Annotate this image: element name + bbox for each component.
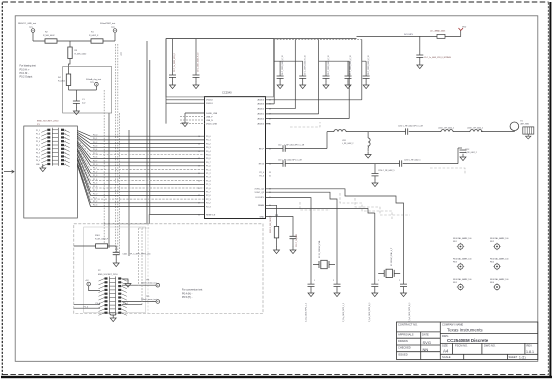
svg-text:DRAWN: DRAWN bbox=[398, 339, 408, 343]
svg-text:P2_0: P2_0 bbox=[36, 141, 40, 143]
svg-text:P2_2: P2_2 bbox=[36, 145, 40, 147]
svg-text:C5 C_100N_0402_K_10: C5 C_100N_0402_K_10 bbox=[305, 55, 307, 75]
svg-text:21: 21 bbox=[198, 173, 200, 175]
svg-text:23: 23 bbox=[198, 180, 200, 182]
svg-text:P1_0: P1_0 bbox=[93, 164, 97, 166]
svg-text:AVDD6: AVDD6 bbox=[257, 99, 264, 102]
svg-text:DGND_USB: DGND_USB bbox=[206, 113, 218, 115]
svg-text:17: 17 bbox=[198, 158, 200, 160]
svg-text:FIDUCIAL_MARK_100: FIDUCIAL_MARK_100 bbox=[490, 257, 508, 260]
svg-text:For biasing test: For biasing test bbox=[20, 65, 37, 68]
svg-text:USB_N: USB_N bbox=[206, 120, 213, 122]
svg-text:REFVCC_GND_test: REFVCC_GND_test bbox=[18, 22, 37, 25]
svg-text:1 (1): 1 (1) bbox=[519, 356, 526, 360]
svg-text:32: 32 bbox=[269, 176, 271, 178]
svg-text:ANT_SMD: ANT_SMD bbox=[521, 123, 530, 126]
svg-text:C9 C_1u_0603_X5R_K_BYPASS: C9 C_1u_0603_X5R_K_BYPASS bbox=[424, 56, 452, 59]
svg-text:R_0R_0402_F: R_0R_0402_F bbox=[95, 239, 109, 241]
svg-text:P0_2: P0_2 bbox=[36, 156, 40, 158]
svg-text:USB_P: USB_P bbox=[206, 116, 213, 118]
svg-text:15: 15 bbox=[198, 151, 200, 153]
svg-text:P1_1: P1_1 bbox=[93, 168, 97, 170]
svg-text:C_15p_0402_NPO_J_5: C_15p_0402_NPO_J_5 bbox=[343, 303, 345, 322]
svg-text:P0_7: P0_7 bbox=[62, 164, 66, 166]
svg-text:P1_3: P1_3 bbox=[93, 175, 97, 177]
svg-text:C_RF_0402_2: C_RF_0402_2 bbox=[465, 152, 477, 154]
svg-text:R_0402: R_0402 bbox=[58, 81, 66, 83]
svg-text:C253 C_RF_0402_5: C253 C_RF_0402_5 bbox=[404, 160, 420, 162]
svg-text:C254 C_RF_0402_5: C254 C_RF_0402_5 bbox=[378, 170, 394, 172]
svg-text:P1_7: P1_7 bbox=[93, 190, 97, 192]
svg-text:11: 11 bbox=[198, 136, 200, 138]
svg-text:C_1p5_0402_NPO_B_5: C_1p5_0402_NPO_B_5 bbox=[409, 303, 411, 322]
svg-text:P2_3: P2_3 bbox=[62, 145, 66, 147]
svg-text:TP4: TP4 bbox=[146, 280, 149, 282]
svg-text:500mV_sense_test: 500mV_sense_test bbox=[141, 298, 157, 301]
svg-text:SIZE: SIZE bbox=[442, 344, 448, 348]
svg-text:FID3: FID3 bbox=[453, 261, 457, 263]
svg-text:C10: C10 bbox=[278, 145, 281, 147]
svg-text:Texas Instruments: Texas Instruments bbox=[447, 327, 483, 332]
svg-text:L_RF_0402_2: L_RF_0402_2 bbox=[342, 143, 353, 145]
svg-text:C6 C_100N_0402_K_10: C6 C_100N_0402_K_10 bbox=[328, 55, 330, 75]
svg-text:FIDUCIAL_MARK_100: FIDUCIAL_MARK_100 bbox=[453, 278, 471, 281]
svg-text:19: 19 bbox=[198, 166, 200, 168]
svg-text:C3 C_100n_0402_K_10: C3 C_100n_0402_K_10 bbox=[198, 53, 200, 72]
svg-text:FIDUCIAL_MARK_100: FIDUCIAL_MARK_100 bbox=[453, 237, 471, 240]
svg-text:ISSUED: ISSUED bbox=[398, 352, 408, 356]
svg-text:P2_2: P2_2 bbox=[93, 201, 97, 203]
svg-text:P0_1: P0_1 bbox=[62, 153, 66, 155]
svg-text:P1_3: P1_3 bbox=[62, 130, 66, 132]
svg-text:XOSC_Q1: XOSC_Q1 bbox=[255, 188, 265, 190]
svg-text:R_56K_0402: R_56K_0402 bbox=[75, 54, 88, 56]
svg-text:X2 32_768KHZ_XTAL: X2 32_768KHZ_XTAL bbox=[318, 240, 321, 258]
svg-text:L253 L_RF_0402_2: L253 L_RF_0402_2 bbox=[467, 128, 483, 130]
svg-text:25: 25 bbox=[198, 188, 200, 190]
svg-text:RF_P: RF_P bbox=[259, 148, 265, 150]
svg-text:C252: C252 bbox=[465, 149, 469, 151]
svg-text:C2 C_1u_0603_X5R_K: C2 C_1u_0603_X5R_K bbox=[174, 52, 176, 72]
svg-text:P1_2: P1_2 bbox=[36, 130, 40, 132]
svg-text:SVG: SVG bbox=[423, 340, 431, 345]
svg-text:P0_4: P0_4 bbox=[93, 149, 97, 151]
svg-text:FID1: FID1 bbox=[453, 241, 457, 243]
svg-text:1: 1 bbox=[378, 280, 379, 282]
svg-text:P0_7: P0_7 bbox=[93, 160, 97, 162]
svg-text:A4: A4 bbox=[443, 349, 449, 354]
svg-text:RESET_N: RESET_N bbox=[206, 214, 216, 216]
svg-text:FID4: FID4 bbox=[490, 261, 494, 263]
svg-text:DCOUPL: DCOUPL bbox=[404, 34, 414, 36]
svg-text:CC2540EM Discrete: CC2540EM Discrete bbox=[447, 338, 489, 343]
svg-text:FIDUCIAL_MARK_100: FIDUCIAL_MARK_100 bbox=[490, 278, 508, 281]
svg-text:REV.: REV. bbox=[527, 344, 533, 348]
svg-text:DATE: DATE bbox=[422, 332, 429, 336]
svg-text:TP_C_NPO_WPO_L34: TP_C_NPO_WPO_L34 bbox=[130, 254, 152, 256]
svg-text:C7 C_100N_0402_K_10: C7 C_100N_0402_K_10 bbox=[350, 55, 352, 75]
svg-text:P2_0: P2_0 bbox=[93, 194, 97, 196]
svg-text:500mA_chg_test: 500mA_chg_test bbox=[86, 78, 101, 81]
svg-text:FID2: FID2 bbox=[490, 241, 494, 243]
svg-text:EMD_SOCKET_2X10: EMD_SOCKET_2X10 bbox=[37, 121, 59, 123]
svg-text:29: 29 bbox=[198, 203, 200, 205]
svg-text:P0_0: P0_0 bbox=[36, 153, 40, 155]
svg-text:P0_0: P0_0 bbox=[93, 134, 97, 136]
svg-text:L251: L251 bbox=[342, 140, 346, 142]
svg-text:E1: E1 bbox=[521, 121, 523, 123]
svg-text:P0_5: P0_5 bbox=[93, 153, 97, 155]
svg-text:33: 33 bbox=[269, 172, 271, 174]
svg-text:P0_1: P0_1 bbox=[93, 138, 97, 140]
svg-text:FIDUCIAL_MARK_100: FIDUCIAL_MARK_100 bbox=[453, 257, 471, 260]
svg-text:P0_2: P0_2 bbox=[93, 142, 97, 144]
svg-text:FID5: FID5 bbox=[453, 282, 457, 284]
svg-text:2: 2 bbox=[333, 280, 334, 282]
svg-text:13: 13 bbox=[198, 143, 200, 145]
svg-text:RF_N: RF_N bbox=[259, 163, 265, 165]
svg-text:P0_4: P0_4 bbox=[36, 160, 40, 162]
svg-text:P1_2: P1_2 bbox=[93, 171, 97, 173]
svg-text:P2_3: P2_3 bbox=[93, 205, 97, 207]
svg-text:P0_6: P0_6 bbox=[93, 157, 97, 159]
svg-text:COMPANY NAME: COMPANY NAME bbox=[442, 323, 463, 327]
svg-text:EMD_SOCKET_2X10: EMD_SOCKET_2X10 bbox=[98, 274, 118, 276]
svg-text:P0.2 Output: P0.2 Output bbox=[20, 76, 33, 79]
svg-text:2: 2 bbox=[399, 280, 400, 282]
svg-text:31: 31 bbox=[198, 214, 200, 216]
svg-text:AVDD4: AVDD4 bbox=[257, 117, 264, 120]
svg-text:P1_4: P1_4 bbox=[36, 134, 40, 136]
svg-text:500mV/DBT_test: 500mV/DBT_test bbox=[100, 22, 116, 25]
svg-text:FIDUCIAL_MARK_100: FIDUCIAL_MARK_100 bbox=[490, 237, 508, 240]
svg-text:C_1p5_0402_NPO_B_5: C_1p5_0402_NPO_B_5 bbox=[369, 303, 371, 322]
svg-text:C_15p_0402_NPO_J_5: C_15p_0402_NPO_J_5 bbox=[306, 303, 308, 322]
svg-text:XOSC_Q2: XOSC_Q2 bbox=[255, 192, 265, 194]
svg-text:27: 27 bbox=[198, 195, 200, 197]
svg-text:P0_3: P0_3 bbox=[93, 146, 97, 148]
svg-text:1.8.1: 1.8.1 bbox=[526, 350, 534, 354]
svg-text:1: 1 bbox=[314, 280, 315, 282]
svg-text:GND: GND bbox=[260, 216, 265, 218]
svg-text:DWG NO.: DWG NO. bbox=[484, 344, 496, 348]
svg-text:NN: NN bbox=[423, 347, 429, 352]
svg-text:C_RF_0402_NPO_C_0R: C_RF_0402_NPO_C_0R bbox=[284, 145, 305, 147]
svg-text:P0_3: P0_3 bbox=[62, 156, 66, 158]
svg-text:AVDD2: AVDD2 bbox=[257, 108, 264, 111]
svg-text:For conversion test: For conversion test bbox=[182, 289, 203, 292]
svg-text:L2 L_BEAD_0603: L2 L_BEAD_0603 bbox=[430, 30, 445, 33]
svg-text:C11 C_RF_0402_NPO_C_0R: C11 C_RF_0402_NPO_C_0R bbox=[278, 160, 303, 162]
svg-text:AVDD3: AVDD3 bbox=[257, 103, 264, 106]
svg-text:C8 C_100N_0402_K_10: C8 C_100N_0402_K_10 bbox=[368, 55, 370, 75]
svg-text:DVDD2: DVDD2 bbox=[206, 100, 214, 102]
svg-text:FSCM NO.: FSCM NO. bbox=[455, 344, 468, 348]
svg-text:DVDD_USB: DVDD_USB bbox=[206, 123, 218, 125]
svg-text:C251 C_RF_0402_NPO_C_0R: C251 C_RF_0402_NPO_C_0R bbox=[398, 126, 424, 128]
svg-text:AVDD1: AVDD1 bbox=[257, 113, 264, 116]
svg-text:P1_6: P1_6 bbox=[36, 137, 40, 139]
svg-text:P2_1: P2_1 bbox=[62, 141, 66, 143]
svg-text:APPROVALS: APPROVALS bbox=[398, 332, 414, 336]
svg-text:CC2540: CC2540 bbox=[222, 91, 232, 95]
svg-text:CHECKED: CHECKED bbox=[398, 346, 411, 350]
svg-text:AVDD5: AVDD5 bbox=[257, 123, 264, 126]
svg-text:P0_5: P0_5 bbox=[62, 160, 66, 162]
svg-text:TP5: TP5 bbox=[146, 296, 149, 298]
svg-text:P1_5: P1_5 bbox=[62, 134, 66, 136]
svg-text:L252 L_RF_0402_2: L252 L_RF_0402_2 bbox=[438, 128, 454, 130]
svg-text:DCOUPL: DCOUPL bbox=[256, 197, 265, 199]
svg-text:P2_4: P2_4 bbox=[36, 149, 40, 151]
svg-text:CONTRACT NO.: CONTRACT NO. bbox=[398, 323, 418, 327]
svg-text:R_560_0402: R_560_0402 bbox=[43, 35, 55, 37]
svg-text:C12 C_1u_0402: C12 C_1u_0402 bbox=[296, 234, 298, 247]
svg-text:500mV_strobe_test: 500mV_strobe_test bbox=[141, 282, 157, 285]
svg-text:C4 C_100N_0402_K_10: C4 C_100N_0402_K_10 bbox=[282, 55, 284, 75]
svg-text:X1 32MHZ_XTAL_4_P: X1 32MHZ_XTAL_4_P bbox=[390, 247, 393, 266]
svg-text:VDD: VDD bbox=[462, 27, 467, 29]
svg-text:P1_5: P1_5 bbox=[93, 183, 97, 185]
svg-text:P1_7: P1_7 bbox=[62, 137, 66, 139]
svg-text:P1_6: P1_6 bbox=[93, 186, 97, 188]
svg-text:DVDD1: DVDD1 bbox=[206, 103, 214, 105]
svg-text:P0.5 (H) -: P0.5 (H) - bbox=[182, 296, 193, 299]
svg-text:SCALE: SCALE bbox=[442, 355, 451, 359]
svg-text:R_0402_F: R_0402_F bbox=[89, 35, 99, 37]
svg-text:R261 R_56K_0402_F: R261 R_56K_0402_F bbox=[270, 215, 272, 233]
svg-text:P1_4: P1_4 bbox=[93, 179, 97, 181]
svg-text:SHEET: SHEET bbox=[509, 355, 518, 359]
svg-text:P2_1: P2_1 bbox=[93, 197, 97, 199]
svg-text:FID6: FID6 bbox=[490, 282, 494, 284]
svg-text:RBIAS: RBIAS bbox=[258, 204, 265, 207]
